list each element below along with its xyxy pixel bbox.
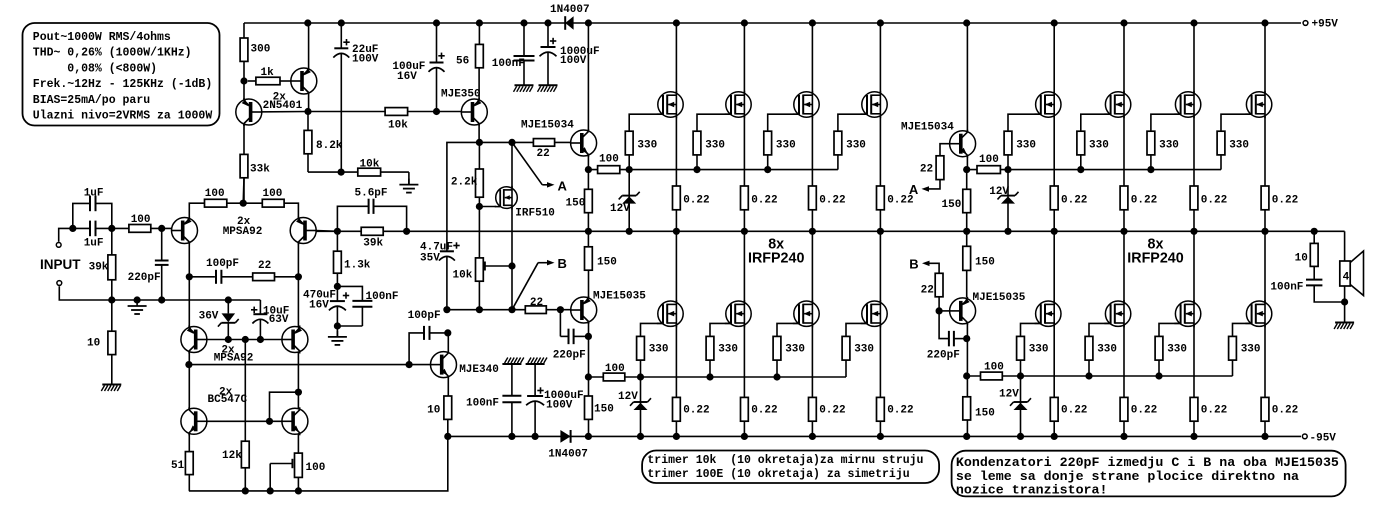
svg-text:2.2k: 2.2k (451, 177, 478, 189)
svg-text:0.22: 0.22 (1272, 405, 1298, 417)
svg-text:0,08% (<800W): 0,08% (<800W) (33, 62, 157, 75)
svg-text:100: 100 (984, 362, 1004, 374)
svg-text:10: 10 (427, 405, 440, 417)
svg-text:0.22: 0.22 (751, 195, 777, 207)
svg-text:330: 330 (705, 140, 725, 152)
svg-text:330: 330 (1241, 344, 1261, 356)
svg-text:0.22: 0.22 (683, 405, 709, 417)
svg-text:100: 100 (263, 188, 283, 200)
svg-text:0.22: 0.22 (751, 405, 777, 417)
svg-text:A: A (558, 179, 568, 194)
svg-text:100pF: 100pF (206, 258, 239, 270)
svg-text:150: 150 (975, 408, 995, 420)
svg-text:BC547C: BC547C (208, 394, 248, 406)
svg-text:330: 330 (1229, 140, 1249, 152)
svg-text:nozice tranzistora!: nozice tranzistora! (956, 482, 1108, 497)
svg-text:330: 330 (718, 344, 738, 356)
svg-text:A: A (909, 182, 919, 197)
svg-text:330: 330 (776, 140, 796, 152)
svg-text:MJE350: MJE350 (441, 89, 481, 101)
svg-text:0.22: 0.22 (1272, 195, 1298, 207)
svg-text:220pF: 220pF (128, 272, 161, 284)
svg-text:51: 51 (171, 460, 185, 472)
svg-text:100: 100 (605, 363, 625, 375)
svg-text:10k: 10k (388, 120, 408, 132)
svg-text:220pF: 220pF (927, 350, 960, 362)
svg-text:MPSA92: MPSA92 (223, 226, 263, 238)
svg-text:63V: 63V (269, 314, 289, 326)
svg-text:22: 22 (258, 260, 271, 272)
svg-text:10: 10 (87, 338, 100, 350)
svg-text:4: 4 (1343, 272, 1350, 284)
svg-text:MJE15035: MJE15035 (973, 292, 1026, 304)
svg-text:100: 100 (205, 188, 225, 200)
svg-text:IRFP240: IRFP240 (1127, 251, 1183, 267)
svg-text:22: 22 (530, 297, 543, 309)
svg-text:22: 22 (921, 285, 934, 297)
svg-text:100nF: 100nF (366, 291, 399, 303)
svg-text:330: 330 (1089, 140, 1109, 152)
svg-text:MJE15034: MJE15034 (521, 120, 574, 132)
svg-text:B: B (558, 256, 567, 271)
svg-text:12V: 12V (999, 389, 1019, 401)
svg-text:330: 330 (637, 140, 657, 152)
svg-text:0.22: 0.22 (819, 195, 845, 207)
svg-text:12k: 12k (222, 450, 242, 462)
svg-text:16V: 16V (397, 71, 417, 83)
svg-text:0.22: 0.22 (1201, 405, 1227, 417)
svg-text:1N4007: 1N4007 (550, 4, 590, 16)
svg-text:B: B (909, 257, 918, 272)
svg-text:22: 22 (920, 164, 933, 176)
svg-text:MJE340: MJE340 (459, 364, 499, 376)
svg-text:8.2k: 8.2k (316, 140, 343, 152)
svg-text:100nF: 100nF (466, 398, 499, 410)
svg-text:330: 330 (649, 344, 669, 356)
svg-text:330: 330 (846, 140, 866, 152)
svg-text:INPUT: INPUT (40, 257, 81, 272)
svg-text:0.22: 0.22 (887, 405, 913, 417)
svg-text:IRFP240: IRFP240 (748, 251, 804, 267)
svg-text:12V: 12V (610, 203, 630, 215)
svg-text:100V: 100V (560, 55, 587, 67)
svg-text:56: 56 (456, 56, 469, 68)
svg-text:150: 150 (975, 257, 995, 269)
svg-text:10k: 10k (360, 158, 380, 170)
svg-text:330: 330 (1097, 344, 1117, 356)
svg-text:0.22: 0.22 (819, 405, 845, 417)
svg-text:330: 330 (1029, 344, 1049, 356)
svg-text:BIAS=25mA/po paru: BIAS=25mA/po paru (33, 94, 150, 107)
svg-text:330: 330 (1016, 140, 1036, 152)
svg-text:1uF: 1uF (84, 187, 104, 199)
svg-text:100V: 100V (352, 54, 379, 66)
svg-text:0.22: 0.22 (1131, 195, 1157, 207)
svg-text:0.22: 0.22 (1131, 405, 1157, 417)
svg-text:100nF: 100nF (1270, 282, 1303, 294)
svg-text:330: 330 (1167, 344, 1187, 356)
svg-text:trimer 10k (10 okretaja)za mi: trimer 10k (10 okretaja)za mirnu struju (647, 454, 923, 467)
svg-text:1uF: 1uF (84, 238, 104, 250)
svg-text:10k: 10k (453, 270, 473, 282)
svg-text:THD~ 0,26% (1000W/1KHz): THD~ 0,26% (1000W/1KHz) (33, 47, 192, 60)
svg-text:0.22: 0.22 (683, 195, 709, 207)
svg-text:1.3k: 1.3k (344, 260, 371, 272)
svg-text:100nF: 100nF (492, 58, 525, 70)
svg-text:12V: 12V (618, 391, 638, 403)
svg-text:16V: 16V (309, 300, 329, 312)
svg-text:39k: 39k (363, 238, 383, 250)
svg-text:Frek.~12Hz - 125KHz (-1dB): Frek.~12Hz - 125KHz (-1dB) (33, 78, 212, 91)
svg-text:12V: 12V (989, 186, 1009, 198)
svg-text:Ulazni nivo=2VRMS za 1000W: Ulazni nivo=2VRMS za 1000W (33, 110, 213, 123)
svg-text:33k: 33k (250, 164, 270, 176)
svg-text:300: 300 (251, 44, 271, 56)
svg-text:10: 10 (1295, 253, 1308, 265)
svg-text:100: 100 (979, 154, 999, 166)
svg-text:0.22: 0.22 (1201, 195, 1227, 207)
svg-text:39k: 39k (89, 262, 109, 274)
svg-text:150: 150 (566, 198, 586, 210)
svg-text:2N5401: 2N5401 (263, 100, 303, 112)
svg-text:1k: 1k (261, 67, 275, 79)
svg-text:22: 22 (537, 148, 550, 160)
svg-text:Kondenzatori 220pF izmedju C i: Kondenzatori 220pF izmedju C i B na oba … (956, 455, 1339, 470)
svg-text:150: 150 (594, 404, 614, 416)
svg-text:220pF: 220pF (553, 350, 586, 362)
svg-text:MPSA92: MPSA92 (214, 353, 254, 365)
svg-text:0.22: 0.22 (1061, 405, 1087, 417)
svg-text:330: 330 (1159, 140, 1179, 152)
svg-text:150: 150 (942, 199, 962, 211)
svg-text:0.22: 0.22 (1061, 195, 1087, 207)
svg-text:Pout~1000W RMS/4ohms: Pout~1000W RMS/4ohms (33, 31, 171, 44)
svg-text:150: 150 (597, 257, 617, 269)
svg-text:IRF510: IRF510 (515, 208, 555, 220)
svg-text:330: 330 (854, 344, 874, 356)
svg-text:100V: 100V (546, 400, 573, 412)
svg-text:100: 100 (599, 154, 619, 166)
svg-text:100: 100 (131, 214, 151, 226)
svg-text:MJE15034: MJE15034 (901, 121, 954, 133)
svg-text:5.6pF: 5.6pF (355, 188, 388, 200)
svg-text:trimer 100E (10 okretaja) za s: trimer 100E (10 okretaja) za simetriju (647, 468, 909, 481)
svg-text:35V: 35V (420, 253, 440, 265)
svg-text:36V: 36V (199, 310, 219, 322)
svg-text:100pF: 100pF (408, 310, 441, 322)
svg-text:MJE15035: MJE15035 (593, 291, 646, 303)
svg-text:330: 330 (785, 344, 805, 356)
svg-text:1N4007: 1N4007 (548, 448, 588, 460)
svg-text:-95V: -95V (1310, 432, 1337, 444)
svg-text:100: 100 (306, 462, 326, 474)
svg-text:+95V: +95V (1312, 19, 1339, 31)
